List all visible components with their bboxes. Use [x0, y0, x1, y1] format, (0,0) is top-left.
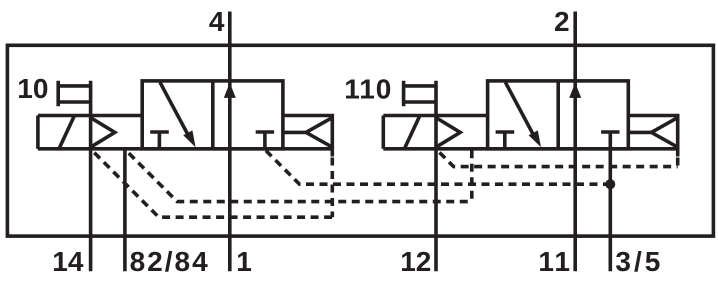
- valve V2 left-square flow arrow: [505, 82, 533, 135]
- valve V2 left pilot triangle: [436, 118, 460, 148]
- valve V2 body: [488, 81, 629, 149]
- valve V2 left-square blocked port T: [496, 132, 515, 149]
- svg-text:2: 2: [554, 6, 570, 37]
- pilot line V1 right-square port to 3/5 junction: [266, 151, 610, 185]
- svg-text:4: 4: [209, 6, 225, 37]
- valve V1 up arrowhead: [224, 83, 236, 98]
- svg-text:14: 14: [52, 246, 84, 277]
- svg-text:82/84: 82/84: [130, 246, 210, 277]
- valve V1 solenoid diagonal: [59, 116, 75, 149]
- valve V2 manual override: [404, 81, 436, 107]
- valve V2 solenoid box: [381, 116, 385, 149]
- pilot line 14-side to V1 right pilot: [94, 153, 332, 218]
- valve V1 center port line: [228, 12, 232, 272]
- svg-text:1: 1: [236, 246, 252, 277]
- valve V2 right pilot box: [628, 116, 677, 157]
- valve V2 center port line: [573, 12, 577, 272]
- svg-text:10: 10: [17, 73, 48, 104]
- svg-text:110: 110: [344, 74, 392, 105]
- valve V1 left-square blocked port T: [150, 132, 169, 149]
- pilot line 82/84 to V2 solenoid pilot: [129, 153, 472, 201]
- valve V1 solenoid box: [36, 116, 40, 149]
- valve V2 right pilot triangle: [651, 118, 677, 148]
- valve V2 right-square blocked port T: [601, 132, 619, 149]
- valve V2 port line 3/5: [608, 149, 612, 271]
- valve V1 right-square blocked port T: [256, 132, 274, 149]
- valve V2 up arrowhead: [569, 83, 581, 98]
- valve V1 left-square flow arrow: [160, 82, 188, 135]
- valve V1 manual override: [58, 81, 90, 107]
- valve V1 left pilot triangle: [91, 118, 115, 148]
- pilot line 12-side to V2 right pilot: [440, 153, 678, 167]
- valve V2 port line 14/12 (boundary): [434, 81, 438, 272]
- outer enclosure frame: [7, 45, 713, 236]
- valve V1 body: [142, 81, 283, 149]
- svg-text:11: 11: [538, 246, 572, 277]
- junction dot on 3/5 line: [605, 179, 615, 189]
- svg-text:12: 12: [400, 246, 431, 277]
- valve V1 port line 14/12 (boundary): [89, 81, 93, 272]
- valve V1 right pilot box: [283, 116, 332, 157]
- valve V2 solenoid diagonal: [404, 116, 420, 149]
- valve V1 port line 82/84: [123, 149, 127, 271]
- svg-text:3/5: 3/5: [615, 246, 663, 277]
- valve V1 right pilot triangle: [306, 118, 332, 148]
